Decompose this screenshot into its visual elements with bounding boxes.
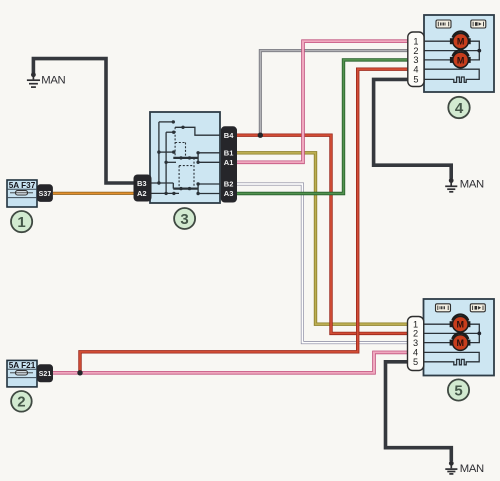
svg-text:5: 5	[413, 357, 418, 367]
svg-text:B1: B1	[224, 149, 234, 158]
svg-text:3: 3	[180, 211, 188, 228]
svg-text:5: 5	[413, 75, 418, 85]
svg-text:A3: A3	[224, 189, 234, 198]
svg-text:2: 2	[17, 394, 25, 411]
svg-text:M: M	[457, 320, 465, 330]
svg-text:S37: S37	[39, 191, 52, 198]
svg-text:5: 5	[454, 382, 462, 399]
svg-text:A2: A2	[137, 189, 147, 198]
svg-text:A1: A1	[224, 158, 234, 167]
svg-text:MAN: MAN	[41, 75, 65, 87]
svg-text:M: M	[457, 37, 465, 47]
svg-text:1: 1	[17, 214, 25, 231]
svg-text:5A F37: 5A F37	[9, 181, 36, 190]
svg-text:B4: B4	[224, 131, 234, 140]
svg-text:M: M	[457, 338, 465, 348]
svg-text:3: 3	[413, 338, 418, 348]
svg-text:B3: B3	[137, 179, 147, 188]
svg-text:4: 4	[413, 64, 418, 74]
svg-text:S21: S21	[39, 371, 52, 378]
svg-text:MAN: MAN	[460, 463, 484, 475]
svg-text:4: 4	[455, 100, 464, 117]
svg-text:M: M	[457, 55, 465, 65]
svg-text:MAN: MAN	[460, 179, 484, 191]
svg-text:5A F21: 5A F21	[9, 361, 36, 370]
svg-text:B2: B2	[224, 180, 234, 189]
